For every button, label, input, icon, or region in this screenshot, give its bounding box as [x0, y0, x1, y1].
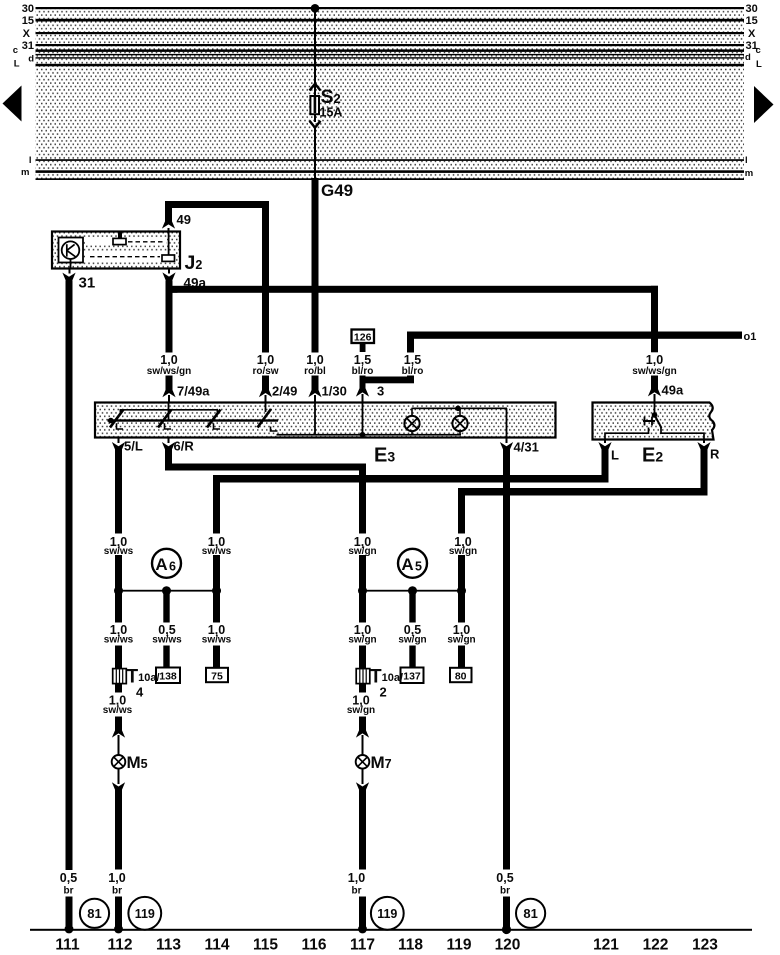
J2 upper contact — [113, 238, 126, 244]
svg-text:d: d — [28, 54, 34, 65]
svg-text:118: 118 — [398, 937, 423, 954]
wire sw/gn 1 lower — [359, 646, 366, 693]
svg-text:o1: o1 — [744, 331, 757, 343]
svg-text:113: 113 — [156, 937, 181, 954]
E3 contact hook 1 — [117, 423, 124, 429]
terminal 6/R — [168, 438, 170, 444]
wire sw/gn 1 mid — [359, 555, 366, 623]
wire bl/ro 2 vertical upper — [407, 332, 414, 353]
bus bar l — [36, 159, 745, 161]
lamp M7 — [356, 755, 370, 769]
connector box 138 — [156, 668, 180, 684]
E3 switch blade 4 — [258, 409, 272, 428]
svg-text:114: 114 — [204, 937, 229, 954]
terminal arrow 49a — [168, 269, 170, 274]
bus bar 31 — [36, 44, 745, 46]
arrow up above fuse — [310, 84, 321, 91]
svg-text:1,0: 1,0 — [257, 353, 274, 367]
connector T10a/2 — [356, 669, 370, 684]
wire sw/ws 2 mid — [213, 555, 220, 623]
terminal arrow 31 — [69, 269, 71, 274]
junction A5 — [398, 549, 427, 578]
wire 49 branch to J2 — [165, 201, 172, 225]
svg-text:bl/ro: bl/ro — [352, 366, 374, 377]
svg-text:br: br — [64, 886, 74, 897]
E3 pin line 7/49a — [168, 403, 170, 422]
svg-text:1/30: 1/30 — [322, 384, 347, 399]
E3 switch blade 3 — [207, 410, 221, 428]
svg-text:sw/ws: sw/ws — [104, 634, 134, 645]
svg-text:80: 80 — [455, 670, 467, 682]
svg-text:l: l — [29, 155, 32, 166]
J2 inner pin line — [168, 232, 170, 256]
wire sw/ws 1 mid — [115, 555, 122, 623]
E2 node — [652, 412, 658, 418]
switch E2 box — [593, 403, 715, 440]
connector box 126 — [352, 330, 375, 344]
svg-text:117: 117 — [350, 937, 375, 954]
svg-text:sw/gn: sw/gn — [348, 634, 376, 645]
stub below 126 — [360, 343, 366, 352]
A5 node 3 — [457, 586, 466, 595]
svg-text:sw/ws: sw/ws — [152, 634, 182, 645]
svg-text:br: br — [112, 886, 122, 897]
wire J2-49 horizontal — [165, 201, 269, 208]
wire 6/R horizontal — [165, 464, 366, 471]
svg-text:L: L — [756, 59, 762, 70]
ground circle 81 left — [80, 899, 109, 928]
svg-text:6/R: 6/R — [174, 439, 195, 454]
bus bar band (stippled) — [36, 8, 745, 179]
svg-text:1,0: 1,0 — [306, 353, 323, 367]
svg-text:R: R — [710, 447, 720, 462]
svg-text:31: 31 — [22, 40, 34, 52]
svg-text:49a: 49a — [662, 383, 684, 398]
svg-text:c: c — [756, 45, 761, 56]
E3 lamp 1 — [411, 408, 413, 416]
svg-text:sw/ws: sw/ws — [103, 705, 133, 716]
svg-text:30: 30 — [22, 3, 34, 15]
E3 pin line 1/30 — [314, 403, 316, 436]
ground circle 119 left — [128, 897, 161, 930]
E3 contact hook 2 — [165, 423, 172, 429]
wire 49a corner bevel — [166, 281, 178, 293]
terminal R — [703, 440, 705, 444]
svg-text:sw/ws: sw/ws — [202, 634, 232, 645]
svg-text:119: 119 — [377, 907, 397, 921]
A5 node 1 — [358, 586, 367, 595]
svg-text:7/49a: 7/49a — [177, 384, 210, 399]
svg-text:15: 15 — [746, 15, 758, 27]
lamp M7 wire lower — [362, 769, 364, 785]
wire sw/ws 1 upper — [115, 450, 122, 534]
svg-text:G49: G49 — [321, 181, 353, 200]
connector box 137 — [401, 668, 424, 684]
J2 K glyph — [67, 244, 76, 257]
svg-text:112: 112 — [107, 937, 132, 954]
svg-text:X: X — [23, 28, 31, 40]
svg-text:c: c — [13, 45, 18, 56]
svg-text:sw/gn: sw/gn — [398, 634, 426, 645]
svg-text:E3: E3 — [374, 445, 395, 467]
lamp M5 wire lower — [118, 769, 120, 785]
svg-text:126: 126 — [354, 331, 372, 343]
E3 pin line 3 — [362, 403, 364, 436]
bus bar m — [36, 170, 745, 173]
A5 junction line — [359, 590, 466, 592]
ground circle 119 right — [371, 897, 404, 930]
svg-text:31: 31 — [79, 275, 96, 292]
svg-text:ro/sw: ro/sw — [252, 366, 278, 377]
terminal 2/49 — [262, 376, 269, 394]
terminal 3 jog wire — [360, 377, 415, 384]
A5 branch wire 0,5 — [409, 591, 415, 623]
svg-text:0,5: 0,5 — [60, 871, 77, 885]
svg-text:15: 15 — [22, 15, 34, 27]
connector box 75 — [206, 668, 228, 682]
svg-text:49: 49 — [177, 212, 191, 227]
svg-text:br: br — [352, 886, 362, 897]
bus bar c — [36, 49, 745, 52]
wire 49a right vertical — [651, 286, 658, 353]
svg-text:1,0: 1,0 — [646, 353, 663, 367]
relay J2 box — [52, 232, 180, 269]
E2 bottom link line — [605, 427, 704, 440]
svg-text:A: A — [155, 555, 167, 574]
svg-text:m: m — [745, 168, 753, 179]
wire o1 horizontal — [407, 332, 742, 339]
svg-text:L: L — [611, 448, 619, 463]
svg-text:0,5: 0,5 — [496, 871, 513, 885]
svg-text:bl/ro: bl/ro — [402, 366, 424, 377]
wire 49a horizontal — [169, 286, 658, 293]
wire fuse to band bottom — [314, 128, 316, 179]
svg-text:81: 81 — [523, 906, 537, 921]
svg-text:4: 4 — [136, 685, 144, 700]
ground terminal node 111 — [65, 925, 74, 934]
A6 node 2 — [162, 586, 171, 595]
E3 switch blade 1 — [110, 410, 124, 428]
terminal 1/30 — [312, 376, 319, 394]
bus bar d — [36, 54, 745, 55]
wire 49a vertical to label — [166, 281, 173, 353]
terminal 3 — [360, 376, 366, 391]
wire 31 to ground — [66, 281, 73, 871]
svg-text:l: l — [745, 155, 748, 166]
connector box 80 — [450, 668, 472, 682]
wire sw/ws 2 lower — [213, 646, 220, 669]
junction A6 — [152, 549, 181, 578]
svg-text:m: m — [21, 167, 29, 178]
svg-text:1,0: 1,0 — [160, 353, 177, 367]
J2 K element square — [59, 238, 84, 263]
svg-text:111: 111 — [55, 937, 80, 954]
E3 bottom link line — [277, 434, 462, 436]
ground terminal node 117 — [358, 925, 367, 934]
bus bar L — [36, 64, 745, 67]
E2 switch blade — [655, 415, 662, 428]
bus bar X — [36, 32, 745, 34]
svg-text:A: A — [401, 555, 413, 574]
wire sw/gn 2 lower — [458, 646, 465, 669]
svg-text:81: 81 — [87, 906, 101, 921]
svg-text:sw/gn: sw/gn — [447, 634, 475, 645]
svg-text:121: 121 — [593, 937, 619, 954]
svg-text:115: 115 — [253, 937, 278, 954]
A6 node 3 — [212, 586, 221, 595]
A6 branch wire 0,5 — [163, 591, 169, 623]
J2 K circle — [62, 241, 80, 259]
svg-text:3: 3 — [377, 384, 384, 399]
svg-text:4/31: 4/31 — [514, 440, 539, 455]
J2 upper channel — [85, 238, 166, 246]
terminal arrow 49 — [162, 220, 175, 229]
svg-text:119: 119 — [446, 937, 471, 954]
ground rail — [30, 929, 752, 931]
node on bus 30 — [311, 4, 320, 13]
E2 switch contact bars — [643, 420, 655, 422]
wire sw/ws 1 lower — [115, 646, 122, 693]
svg-text:5/L: 5/L — [124, 439, 143, 454]
E3 contact hook 4 — [271, 427, 278, 432]
svg-text:122: 122 — [643, 937, 669, 954]
bus bar 30 — [36, 7, 745, 9]
svg-text:sw/ws/gn: sw/ws/gn — [632, 366, 676, 377]
svg-text:15A: 15A — [320, 106, 343, 120]
ground terminal node 120 — [502, 925, 511, 934]
J2 lower contact — [162, 255, 175, 261]
E3 bus node — [108, 418, 114, 424]
terminal 7/49a — [166, 376, 173, 394]
wire R elbow — [701, 450, 708, 496]
svg-text:L: L — [14, 59, 20, 70]
left page arrow — [3, 86, 22, 122]
svg-text:1,0: 1,0 — [108, 871, 125, 885]
wire G49 thick — [312, 178, 319, 353]
svg-text:119: 119 — [135, 907, 155, 921]
J2 coil-to-ground line — [70, 259, 72, 269]
terminal L — [604, 440, 606, 444]
svg-text:1,5: 1,5 — [354, 353, 371, 367]
wire sw/gn 1 upper — [359, 464, 366, 534]
svg-text:116: 116 — [301, 937, 326, 954]
E3 lamp link node — [455, 406, 461, 412]
wire 6/R elbow down — [165, 450, 172, 471]
svg-text:5: 5 — [415, 560, 422, 574]
svg-text:d: d — [745, 52, 751, 63]
A6 node 1 — [114, 586, 123, 595]
right page arrow — [754, 86, 774, 123]
lamp M5 — [112, 755, 126, 769]
svg-text:120: 120 — [495, 937, 521, 954]
ground circle 81 right — [516, 899, 545, 928]
E3 lamp 2 — [459, 408, 461, 416]
ground terminal node 112 — [114, 925, 123, 934]
E2 pin line 49a — [654, 403, 656, 416]
svg-text:75: 75 — [211, 670, 223, 682]
svg-text:1,0: 1,0 — [348, 871, 365, 885]
svg-text:1,5: 1,5 — [404, 353, 421, 367]
connector T10a/4 — [113, 669, 127, 684]
lamp M7 wire upper — [359, 717, 366, 731]
arrow down below fuse — [314, 114, 316, 122]
switch E3 box — [95, 403, 556, 438]
E3 bottom node — [360, 432, 366, 438]
svg-text:2: 2 — [380, 685, 387, 700]
wire sw/gn 2 mid — [458, 555, 465, 623]
wire 4/31 to ground — [503, 450, 510, 870]
terminal 4/31 — [506, 438, 508, 444]
svg-text:123: 123 — [692, 937, 718, 954]
A5 branch lower — [409, 646, 415, 669]
svg-text:E2: E2 — [642, 445, 663, 467]
band bottom edge — [36, 178, 745, 180]
svg-text:6: 6 — [169, 560, 176, 574]
E3 top link line — [120, 410, 217, 415]
svg-text:br: br — [500, 886, 510, 897]
svg-text:2/49: 2/49 — [272, 384, 297, 399]
J2 lower channel — [85, 252, 176, 262]
svg-text:X: X — [748, 28, 756, 40]
E3 line to 4/31 — [506, 408, 508, 437]
svg-text:30: 30 — [746, 3, 758, 15]
wire from bus 30 to fuse — [314, 8, 316, 84]
svg-text:sw/ws/gn: sw/ws/gn — [147, 366, 191, 377]
svg-text:138: 138 — [159, 671, 177, 683]
wire ro/sw vertical upper — [262, 201, 269, 353]
E3 bus line — [108, 419, 279, 421]
wire L elbow — [602, 450, 609, 483]
A6 junction line — [115, 590, 222, 592]
lamp M5 wire upper — [115, 717, 122, 731]
bus bar 15 — [36, 19, 745, 22]
terminal 5/L — [118, 438, 120, 444]
J2 top pin stub — [118, 232, 122, 239]
A6 branch lower — [163, 646, 169, 669]
A5 node 2 — [408, 586, 417, 595]
svg-text:ro/bl: ro/bl — [304, 366, 326, 377]
E3 switch blade 2 — [158, 410, 172, 428]
E3 lamp link line — [412, 408, 508, 410]
E3 pin line 2/49 — [265, 403, 267, 413]
svg-text:sw/gn: sw/gn — [347, 705, 375, 716]
terminal 49a (E2) — [651, 376, 658, 392]
svg-text:137: 137 — [403, 671, 421, 683]
fuse S2 — [310, 96, 319, 114]
E3 contact hook 3 — [214, 423, 221, 429]
